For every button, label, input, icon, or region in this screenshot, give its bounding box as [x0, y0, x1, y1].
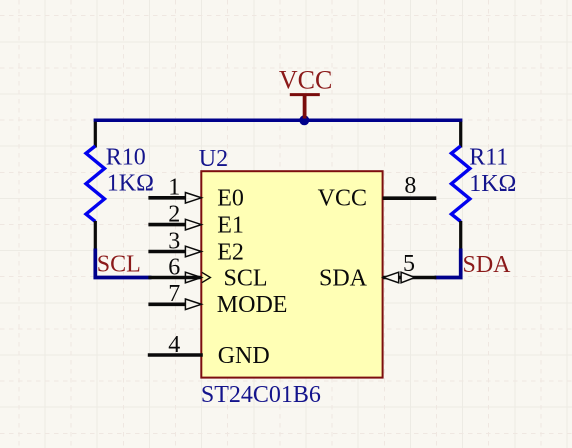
svg-text:8: 8: [404, 173, 416, 199]
value label 1KΩ (R11): [469, 171, 516, 197]
svg-text:ST24C01B6: ST24C01B6: [201, 382, 321, 408]
wire VCC rail (top horizontal net): [94, 119, 463, 123]
svg-text:7: 7: [168, 281, 180, 307]
svg-text:VCC: VCC: [279, 66, 332, 95]
pin 6 SCL: [148, 254, 267, 291]
svg-text:SDA: SDA: [463, 252, 512, 278]
pin 7 MODE: [148, 281, 287, 318]
svg-text:3: 3: [168, 228, 180, 254]
designator U2: [199, 146, 228, 172]
svg-text:E0: E0: [217, 186, 244, 212]
svg-text:R10: R10: [106, 144, 146, 170]
power port VCC: [279, 66, 332, 119]
wire SDA net (right, from R11 to pin 5): [435, 249, 461, 278]
svg-text:R11: R11: [469, 145, 508, 171]
svg-text:1KΩ: 1KΩ: [469, 171, 516, 197]
pin 2 E1: [148, 201, 243, 238]
pin 4 GND: [148, 332, 270, 369]
part number ST24C01B6: [201, 382, 321, 408]
svg-text:6: 6: [168, 254, 180, 280]
svg-text:4: 4: [168, 332, 180, 358]
svg-text:SCL: SCL: [97, 251, 141, 277]
net label SDA: [463, 252, 512, 278]
pin 3 E2: [148, 228, 243, 265]
junction dot on VCC rail: [299, 115, 309, 125]
svg-text:5: 5: [403, 251, 415, 277]
resistor R10: [86, 122, 105, 250]
svg-text:2: 2: [168, 201, 180, 227]
svg-text:SCL: SCL: [224, 265, 268, 291]
pin 8 VCC: [318, 173, 437, 212]
svg-text:VCC: VCC: [318, 186, 367, 212]
designator label R10: [106, 144, 146, 170]
pin 1 E0: [148, 175, 243, 212]
IC U2 body: [201, 171, 382, 377]
svg-text:GND: GND: [218, 343, 270, 369]
wire SCL net (left, from R10 to pin 6): [95, 249, 151, 278]
resistor R11: [451, 122, 470, 250]
svg-text:E1: E1: [217, 213, 244, 239]
svg-text:U2: U2: [199, 146, 228, 172]
value label 1KΩ (R10): [107, 171, 154, 197]
svg-text:SDA: SDA: [319, 265, 368, 291]
designator label R11: [469, 145, 508, 171]
net label SCL: [97, 251, 141, 277]
svg-text:1KΩ: 1KΩ: [107, 171, 154, 197]
svg-text:1: 1: [168, 175, 180, 201]
pin 5 SDA: [319, 251, 436, 291]
svg-text:E2: E2: [217, 239, 244, 265]
svg-text:MODE: MODE: [217, 292, 288, 318]
